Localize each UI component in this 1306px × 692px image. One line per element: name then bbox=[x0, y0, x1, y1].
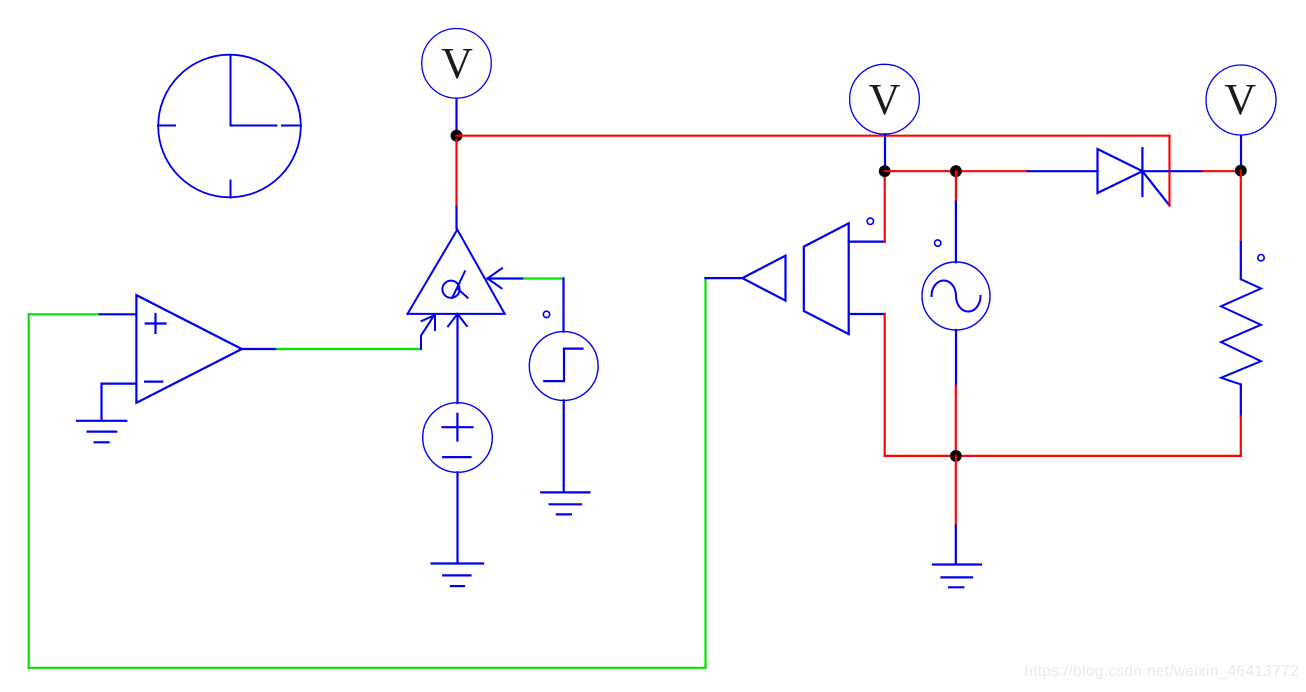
ground at opamp bbox=[77, 421, 126, 443]
wire red top horizontal bbox=[457, 135, 1170, 137]
node below V3 bbox=[1235, 165, 1247, 177]
node AC top bbox=[950, 165, 962, 177]
clock symbol bbox=[158, 55, 301, 198]
wire blue pin -input bbox=[102, 384, 137, 421]
node AC bottom bbox=[950, 450, 962, 462]
terminal marker gating top bbox=[867, 218, 873, 224]
wire red AC bottom bbox=[955, 386, 957, 456]
wire red down to alpha bbox=[455, 140, 457, 207]
wire blue AC bottom pin bbox=[955, 330, 957, 386]
wire blue AC top pin bbox=[955, 202, 957, 263]
wire step source top bbox=[562, 279, 564, 332]
wire red node to resistor bbox=[1240, 171, 1242, 243]
wire green opamp output bbox=[277, 348, 421, 350]
svg-text:V: V bbox=[441, 39, 473, 88]
wire red gating bottom down bbox=[884, 314, 886, 456]
wire red gating top to node bbox=[884, 171, 886, 241]
wire red bottom horizontal bbox=[885, 455, 1241, 457]
terminal marker step source bbox=[543, 311, 549, 317]
svg-text:V: V bbox=[869, 75, 901, 124]
wire blue gating top output bbox=[849, 241, 885, 243]
wire V3 to node bbox=[1240, 136, 1242, 166]
wire red gate drop bbox=[1168, 136, 1170, 206]
arrow into alpha right input bbox=[488, 268, 503, 288]
wire step source bottom bbox=[563, 400, 565, 491]
ac voltage source V_ac bbox=[922, 262, 990, 330]
buffer gate U3 bbox=[742, 256, 785, 301]
wire blue ground pin bbox=[955, 526, 957, 564]
wire red resistor to bottom rail bbox=[1240, 417, 1242, 456]
wire blue alpha to dc source bbox=[456, 314, 458, 403]
thyristor T1 bbox=[1098, 148, 1170, 205]
terminal marker AC source bbox=[935, 240, 941, 246]
wire blue thyristor cathode pin bbox=[1142, 170, 1203, 172]
voltmeter V3 bbox=[1206, 65, 1276, 135]
wire blue opamp output pin bbox=[242, 348, 277, 350]
resistor R1 bbox=[1221, 279, 1261, 384]
wire blue gating bottom output bbox=[849, 313, 885, 315]
green feedback loop wire bbox=[29, 278, 706, 668]
wire V2 to node bbox=[884, 134, 886, 166]
wire blue alpha sync pin bbox=[488, 277, 525, 279]
svg-text:V: V bbox=[1224, 75, 1256, 124]
node below V1 bbox=[451, 130, 463, 142]
terminal marker resistor bbox=[1258, 255, 1264, 261]
wire red cathode to node bbox=[1203, 170, 1241, 172]
wire blue pin +input bbox=[100, 313, 136, 315]
ground at dc source bbox=[432, 564, 484, 587]
arrow into alpha bottom middle bbox=[448, 314, 467, 326]
wire V1 to node bbox=[455, 100, 457, 132]
wire red node to node AC bbox=[885, 170, 1028, 172]
gating block U4 bbox=[804, 223, 849, 334]
ground at AC source bbox=[933, 565, 981, 588]
ground at step source bbox=[541, 492, 589, 514]
arrow into alpha bottom left bbox=[421, 316, 435, 350]
wire dc source bottom bbox=[456, 472, 458, 563]
node below V2 bbox=[879, 165, 891, 177]
op-amp comparator U1 bbox=[136, 295, 241, 403]
voltmeter V2 bbox=[850, 64, 920, 134]
wire blue thyristor anode pin bbox=[1028, 170, 1098, 172]
watermark bbox=[1024, 663, 1299, 681]
wire blue buffer input pin bbox=[706, 277, 743, 279]
alpha controller U2 bbox=[408, 230, 505, 314]
wire blue resistor top pin bbox=[1240, 242, 1242, 279]
wire red to ground bbox=[955, 456, 957, 526]
wire green opamp +input bbox=[29, 313, 100, 315]
wire blue pin to alpha apex bbox=[455, 207, 457, 229]
dc voltage source V_dc bbox=[423, 403, 493, 473]
wire blue resistor bottom pin bbox=[1240, 384, 1242, 416]
wire green to step source bbox=[524, 277, 564, 279]
wire red AC top bbox=[955, 171, 957, 201]
step voltage source V_step bbox=[529, 332, 598, 401]
voltmeter V1 bbox=[422, 29, 492, 99]
